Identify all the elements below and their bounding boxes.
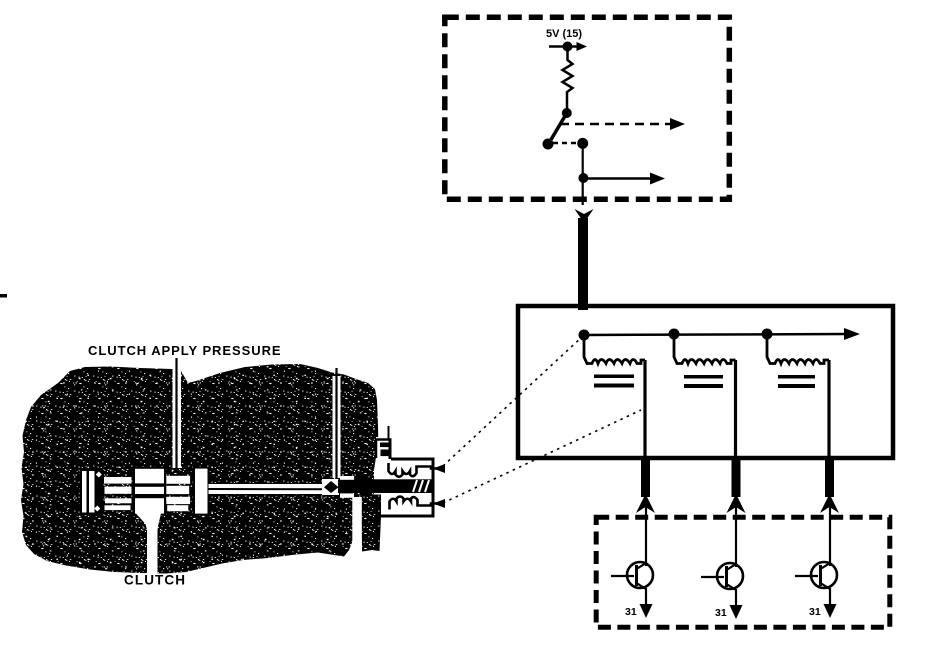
label lead line: clutch apply pressure pipe bbox=[173, 366, 182, 468]
up arrow 1 bbox=[636, 494, 655, 513]
dotted zoom line upper bbox=[443, 336, 583, 466]
thick output stub 2 bbox=[732, 459, 741, 497]
thick output stub 1 bbox=[641, 459, 650, 497]
push rod (to solenoid) bbox=[209, 484, 331, 494]
node L1 bbox=[579, 330, 590, 341]
core bars L2 bbox=[684, 375, 723, 379]
transistor Q2 bbox=[701, 505, 743, 619]
dashed signal arrow (upper output) bbox=[560, 123, 672, 126]
feed pipe (right vertical passage) bbox=[333, 376, 341, 478]
up arrow 3 bbox=[820, 494, 839, 513]
thick output stub 3 bbox=[825, 459, 834, 497]
spool valve: spring section A (white stripes) bbox=[104, 477, 132, 484]
node L3 bbox=[762, 329, 773, 340]
dotted zoom line lower bbox=[443, 410, 641, 503]
svg-text:CLUTCH APPLY PRESSURE: CLUTCH APPLY PRESSURE bbox=[88, 343, 282, 358]
solenoid coil L3 bbox=[767, 334, 829, 364]
up arrow 2 bbox=[727, 494, 746, 513]
svg-text:CLUTCH: CLUTCH bbox=[124, 573, 186, 588]
solenoid: mount bracket bbox=[376, 440, 392, 459]
solenoid coil (upper winding) bbox=[389, 463, 441, 477]
thick supply wire down to driver box bbox=[578, 218, 588, 310]
coil L1 output wire bbox=[643, 360, 646, 459]
fluid passage below armature bbox=[352, 497, 362, 556]
spool valve: right land bbox=[194, 468, 209, 515]
coil L3 output wire bbox=[827, 360, 830, 459]
solenoid: body outline bbox=[378, 459, 433, 516]
armature clearance slots bbox=[340, 476, 354, 480]
node L2 bbox=[669, 329, 680, 340]
node C bbox=[577, 138, 588, 149]
armature hatch marks bbox=[413, 480, 417, 492]
spool valve: center land bbox=[134, 468, 165, 515]
armature guide column (below solenoid) bbox=[361, 495, 381, 552]
callout arrow at solenoid upper terminal bbox=[433, 464, 445, 473]
core bars L1 bbox=[594, 375, 634, 379]
solid signal arrow (lower output) bbox=[583, 177, 652, 180]
solenoid: white body backdrop bbox=[380, 455, 434, 479]
resistor R1 (pull-up) bbox=[563, 47, 573, 114]
bus arrow bbox=[844, 328, 860, 340]
transistor Q3 bbox=[795, 505, 837, 618]
module enclosure bbox=[518, 306, 893, 458]
callout arrow at solenoid lower terminal bbox=[433, 499, 445, 508]
node B (resistor bottom) bbox=[562, 108, 572, 118]
node A (supply node with arrow) bbox=[549, 45, 578, 48]
svg-text:31: 31 bbox=[625, 606, 637, 618]
down arrow into driver module bbox=[575, 209, 594, 223]
svg-text:31: 31 bbox=[715, 607, 727, 619]
second speckle layer to break regularity bbox=[21, 364, 379, 574]
solenoid coil (lower winding) bbox=[390, 497, 441, 510]
spool valve: spring section B (white stripes) bbox=[166, 476, 190, 484]
dashed link to node C bbox=[553, 142, 576, 145]
dashed enclosure (control unit input stage) bbox=[445, 17, 730, 199]
svg-text:31: 31 bbox=[809, 606, 821, 618]
solenoid armature band (plunger) bbox=[338, 479, 432, 493]
wire node C down bbox=[582, 143, 584, 205]
dashed enclosure bbox=[596, 517, 890, 627]
spool valve: left end cap bbox=[80, 468, 104, 515]
rod end pocket and coupler bbox=[322, 479, 339, 495]
node D bbox=[578, 173, 588, 183]
switch S1 blade (open contact) bbox=[549, 113, 567, 143]
coil L2 output wire bbox=[734, 360, 737, 459]
solenoid coil L1 bbox=[584, 335, 645, 364]
solenoid coil L2 bbox=[674, 334, 736, 364]
core bars L3 bbox=[778, 375, 815, 379]
clutch feed stub (white channel to CLUTCH label) bbox=[136, 514, 161, 575]
svg-text:5V (15): 5V (15) bbox=[546, 28, 582, 40]
transistor Q1 bbox=[611, 505, 653, 618]
supply bus wire bbox=[584, 334, 847, 335]
housing blob (halftone mass) bbox=[21, 364, 379, 574]
tick at left page margin bbox=[0, 294, 7, 298]
